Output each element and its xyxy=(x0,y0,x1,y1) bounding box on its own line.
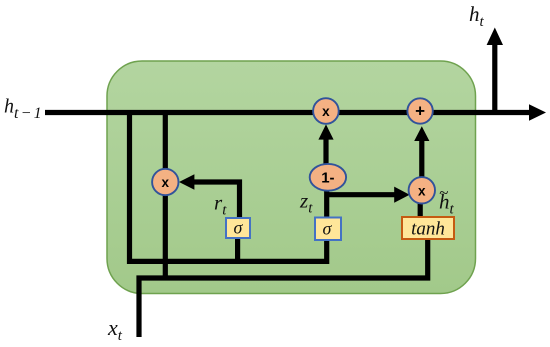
wire: h_t output branch up xyxy=(487,28,503,113)
gate: sigma z box xyxy=(315,218,341,241)
op: multiply circle on main line xyxy=(313,98,339,124)
svg-text:ht−1: ht−1 xyxy=(4,95,44,122)
svg-text:σ: σ xyxy=(234,217,244,237)
svg-text:x: x xyxy=(322,104,330,119)
wire: candidate x circle up into + circle (arrow up) xyxy=(414,126,429,177)
op: reset multiply circle xyxy=(152,169,178,195)
svg-text:σ: σ xyxy=(323,219,333,239)
wire: h drop through reset gate circle to bus B xyxy=(163,110,168,278)
wire: tanh output up to candidate x circle xyxy=(418,200,423,218)
gate: sigma r box xyxy=(226,217,250,238)
wire: sigma-r output up and left arrow into reset x circle xyxy=(179,174,240,218)
svg-text:x: x xyxy=(418,183,426,198)
svg-text:tanh: tanh xyxy=(411,219,445,240)
wire: sigma-z output up to ellipse xyxy=(324,191,329,218)
wire: z branch arrow right into candidate x circle xyxy=(327,187,410,203)
svg-text:~: ~ xyxy=(439,183,448,202)
gate: tanh box xyxy=(402,217,454,240)
svg-text:ht: ht xyxy=(469,2,485,30)
op: candidate multiply circle xyxy=(409,177,435,203)
wire: sigma-r bottom drop to bus A xyxy=(235,238,240,261)
wire: main h line xyxy=(45,104,546,121)
wire: h drop to bus A, bus A, sigma-z drop xyxy=(129,110,326,261)
wire: 1- ellipse to top x circle (arrow up) xyxy=(318,124,333,164)
op: 1- ellipse xyxy=(310,164,346,191)
wire: x_t input, bus B, tanh feed xyxy=(139,239,428,337)
svg-text:xt: xt xyxy=(107,315,123,344)
svg-text:x: x xyxy=(162,175,170,190)
GRU cell body (green rounded rectangle) xyxy=(107,61,476,294)
op: add circle on main line xyxy=(407,98,432,123)
svg-text:1-: 1- xyxy=(321,170,334,187)
svg-text:+: + xyxy=(415,102,425,121)
